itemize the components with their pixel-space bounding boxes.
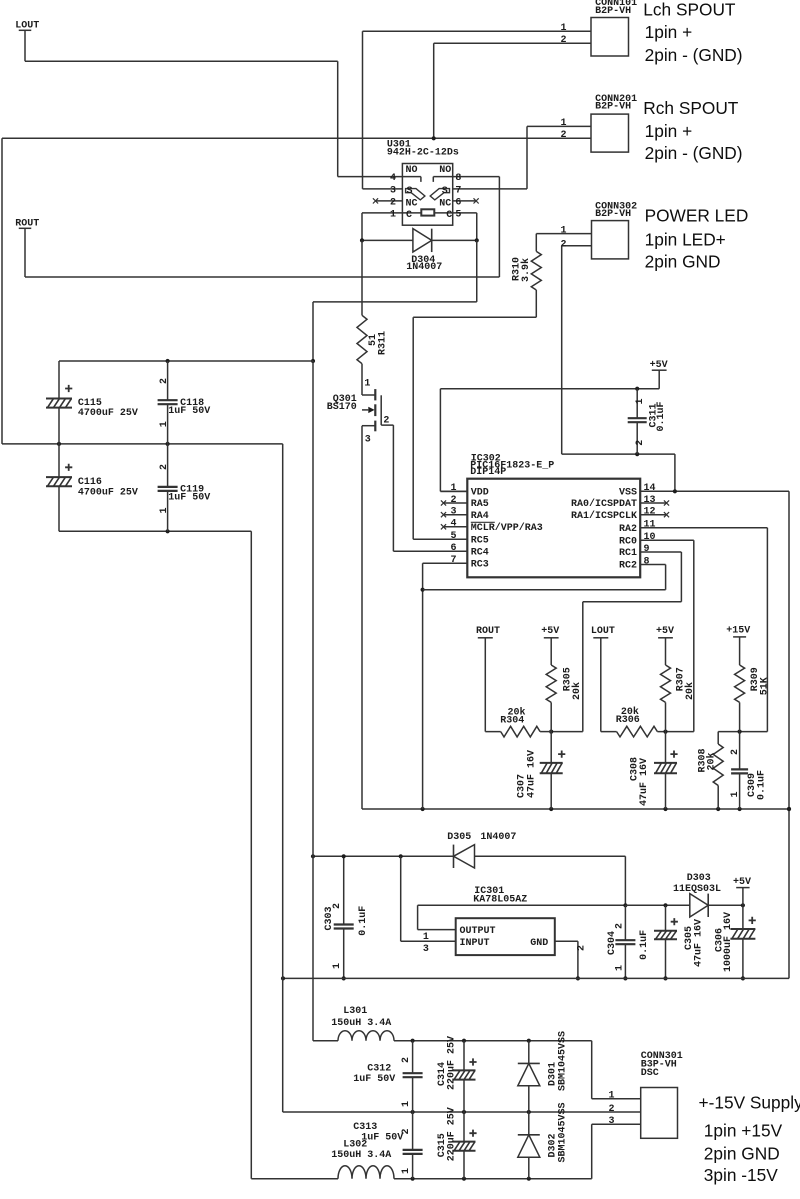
svg-text:1: 1 xyxy=(561,23,567,34)
svg-text:0.1uF: 0.1uF xyxy=(756,770,767,800)
svg-text:B2P-VH: B2P-VH xyxy=(595,209,631,220)
svg-text:11EQS03L: 11EQS03L xyxy=(673,884,721,895)
svg-text:220uF 25V: 220uF 25V xyxy=(446,1036,457,1090)
svg-text:RA0/ICSPDAT: RA0/ICSPDAT xyxy=(571,498,637,510)
svg-text:2: 2 xyxy=(730,749,741,755)
svg-text:R306: R306 xyxy=(616,715,640,726)
svg-text:S: S xyxy=(407,186,413,197)
svg-text:4: 4 xyxy=(390,173,396,184)
svg-text:2pin GND: 2pin GND xyxy=(645,252,721,272)
svg-text:C303: C303 xyxy=(324,906,335,930)
svg-text:RC5: RC5 xyxy=(471,536,489,547)
svg-text:20k: 20k xyxy=(571,682,583,700)
svg-text:1: 1 xyxy=(159,507,170,513)
svg-text:2: 2 xyxy=(561,130,567,141)
svg-text:POWER LED: POWER LED xyxy=(645,205,749,225)
svg-text:20k: 20k xyxy=(684,682,696,700)
svg-text:R311: R311 xyxy=(377,331,388,355)
svg-text:SBM1045VSS: SBM1045VSS xyxy=(557,1102,568,1162)
svg-text:7: 7 xyxy=(450,555,456,566)
svg-text:1pin +15V: 1pin +15V xyxy=(704,1121,783,1141)
svg-text:4700uF 25V: 4700uF 25V xyxy=(78,487,138,498)
svg-text:NO: NO xyxy=(406,165,418,176)
svg-text:Rch SPOUT: Rch SPOUT xyxy=(643,98,739,118)
svg-text:47uF 16V: 47uF 16V xyxy=(639,758,650,806)
svg-text:RA5: RA5 xyxy=(471,499,489,510)
svg-text:0.1uF: 0.1uF xyxy=(358,906,369,936)
svg-text:2pin - (GND): 2pin - (GND) xyxy=(645,45,743,65)
svg-text:RC0: RC0 xyxy=(619,536,637,547)
svg-text:RC4: RC4 xyxy=(471,547,489,558)
svg-text:47uF 16V: 47uF 16V xyxy=(694,919,705,967)
svg-text:D303: D303 xyxy=(687,873,711,884)
svg-text:150uH 3.4A: 150uH 3.4A xyxy=(331,1150,391,1161)
svg-text:B2P-VH: B2P-VH xyxy=(595,101,631,112)
svg-text:C304: C304 xyxy=(607,931,618,955)
svg-text:1: 1 xyxy=(730,791,741,797)
svg-text:VDD: VDD xyxy=(471,488,489,499)
svg-text:7: 7 xyxy=(455,185,461,196)
svg-text:+5V: +5V xyxy=(733,877,751,888)
svg-text:6: 6 xyxy=(455,197,461,208)
svg-text:L301: L301 xyxy=(343,1006,367,1017)
svg-text:NC: NC xyxy=(406,199,418,210)
svg-text:BS170: BS170 xyxy=(327,402,357,413)
svg-text:150uH 3.4A: 150uH 3.4A xyxy=(331,1018,391,1029)
svg-text:1: 1 xyxy=(635,398,646,404)
svg-text:9: 9 xyxy=(644,544,650,555)
svg-text:2: 2 xyxy=(450,495,456,506)
svg-text:1: 1 xyxy=(450,483,456,494)
svg-text:3: 3 xyxy=(365,435,371,446)
svg-text:1: 1 xyxy=(561,225,567,236)
svg-text:1pin +: 1pin + xyxy=(645,121,693,141)
svg-text:LOUT: LOUT xyxy=(15,20,39,31)
svg-text:2: 2 xyxy=(609,1104,615,1115)
svg-text:C: C xyxy=(406,210,412,221)
svg-text:8: 8 xyxy=(455,173,461,184)
svg-text:C: C xyxy=(446,210,452,221)
svg-text:1000uF 16V: 1000uF 16V xyxy=(723,912,734,972)
svg-text:D305: D305 xyxy=(447,832,471,843)
svg-text:RA2: RA2 xyxy=(619,524,637,535)
svg-text:1: 1 xyxy=(390,209,396,220)
svg-text:KA78L05AZ: KA78L05AZ xyxy=(473,895,527,906)
svg-text:5: 5 xyxy=(455,209,461,220)
svg-text:6: 6 xyxy=(450,543,456,554)
svg-text:C313: C313 xyxy=(353,1122,377,1133)
svg-text:3: 3 xyxy=(390,185,396,196)
svg-text:1uF 50V: 1uF 50V xyxy=(168,406,210,417)
svg-text:DIP14P: DIP14P xyxy=(470,467,506,478)
svg-text:+5V: +5V xyxy=(650,360,668,371)
svg-text:VSS: VSS xyxy=(619,488,637,499)
svg-text:+5V: +5V xyxy=(541,626,559,637)
svg-text:GND: GND xyxy=(530,938,548,949)
svg-text:OUTPUT: OUTPUT xyxy=(460,926,496,937)
svg-text:2: 2 xyxy=(561,239,567,250)
svg-text:1: 1 xyxy=(423,932,429,943)
svg-text:1pin +: 1pin + xyxy=(645,22,693,42)
svg-text:1: 1 xyxy=(561,118,567,129)
svg-text:ROUT: ROUT xyxy=(476,626,500,637)
svg-text:NC: NC xyxy=(439,199,451,210)
svg-text:1N4007: 1N4007 xyxy=(480,832,516,843)
svg-text:51K: 51K xyxy=(759,677,770,695)
svg-text:5: 5 xyxy=(450,531,456,542)
svg-text:1: 1 xyxy=(401,1101,412,1107)
svg-text:2: 2 xyxy=(159,464,170,470)
svg-text:1N4007: 1N4007 xyxy=(406,262,442,273)
svg-text:942H-2C-12Ds: 942H-2C-12Ds xyxy=(387,147,459,158)
svg-text:2: 2 xyxy=(401,1057,412,1063)
svg-text:8: 8 xyxy=(644,556,650,567)
svg-text:12: 12 xyxy=(644,507,656,518)
svg-text:47uF 16V: 47uF 16V xyxy=(527,750,538,798)
svg-text:RC2: RC2 xyxy=(619,561,637,572)
svg-text:0.1uF: 0.1uF xyxy=(656,401,667,431)
svg-text:R304: R304 xyxy=(500,716,524,727)
svg-text:RA1/ICSPCLK: RA1/ICSPCLK xyxy=(571,510,637,522)
svg-text:RC3: RC3 xyxy=(471,559,489,570)
svg-text:2: 2 xyxy=(390,197,396,208)
svg-text:MCLR/VPP/RA3: MCLR/VPP/RA3 xyxy=(471,522,543,534)
svg-text:2: 2 xyxy=(159,378,170,384)
svg-text:NO: NO xyxy=(439,165,451,176)
svg-text:LOUT: LOUT xyxy=(591,626,615,637)
svg-text:20k: 20k xyxy=(706,752,718,770)
svg-text:INPUT: INPUT xyxy=(460,938,490,949)
svg-text:4700uF 25V: 4700uF 25V xyxy=(78,408,138,419)
svg-text:4: 4 xyxy=(450,519,456,530)
svg-text:1: 1 xyxy=(401,1168,412,1174)
svg-text:2: 2 xyxy=(576,945,587,951)
svg-text:B2P-VH: B2P-VH xyxy=(595,6,631,17)
svg-text:2: 2 xyxy=(635,440,646,446)
svg-text:2: 2 xyxy=(383,416,389,427)
svg-text:1: 1 xyxy=(364,378,370,389)
svg-text:1: 1 xyxy=(609,1091,615,1102)
svg-text:3: 3 xyxy=(450,507,456,518)
svg-text:S: S xyxy=(442,186,448,197)
svg-text:SBM1045VSS: SBM1045VSS xyxy=(557,1031,568,1091)
svg-text:1: 1 xyxy=(159,421,170,427)
svg-text:1: 1 xyxy=(614,965,625,971)
svg-text:+15V: +15V xyxy=(726,626,750,637)
svg-text:+5V: +5V xyxy=(656,626,674,637)
svg-text:ROUT: ROUT xyxy=(15,218,39,229)
svg-text:3pin -15V: 3pin -15V xyxy=(704,1165,778,1185)
svg-text:0.1uF: 0.1uF xyxy=(639,930,650,960)
svg-text:Lch SPOUT: Lch SPOUT xyxy=(643,0,736,19)
svg-text:14: 14 xyxy=(644,483,656,494)
svg-text:3: 3 xyxy=(609,1116,615,1127)
svg-text:C312: C312 xyxy=(367,1063,391,1074)
svg-text:2: 2 xyxy=(561,35,567,46)
svg-text:1: 1 xyxy=(332,963,343,969)
svg-text:2pin GND: 2pin GND xyxy=(704,1143,780,1163)
svg-text:220uF 25V: 220uF 25V xyxy=(446,1107,457,1161)
svg-text:3.9k: 3.9k xyxy=(520,258,532,282)
svg-text:3: 3 xyxy=(423,944,429,955)
svg-text:DSC: DSC xyxy=(641,1068,659,1079)
svg-text:+-15V Supply: +-15V Supply xyxy=(699,1093,800,1113)
svg-text:2pin - (GND): 2pin - (GND) xyxy=(645,143,743,163)
svg-text:10: 10 xyxy=(644,532,656,543)
svg-text:1uF 50V: 1uF 50V xyxy=(361,1133,403,1144)
svg-text:11: 11 xyxy=(644,520,656,531)
svg-text:RA4: RA4 xyxy=(471,511,489,522)
svg-text:13: 13 xyxy=(644,495,656,506)
svg-text:2: 2 xyxy=(614,923,625,929)
svg-text:1uF 50V: 1uF 50V xyxy=(168,493,210,504)
svg-text:1pin LED+: 1pin LED+ xyxy=(645,229,726,249)
svg-text:1uF 50V: 1uF 50V xyxy=(353,1074,395,1085)
svg-text:RC1: RC1 xyxy=(619,548,637,559)
